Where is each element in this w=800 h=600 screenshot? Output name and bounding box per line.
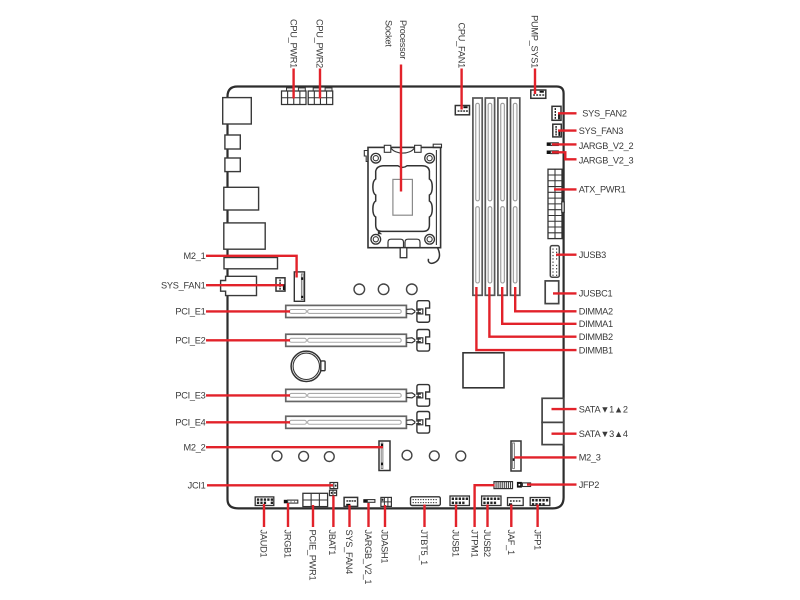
connector JFP1 (USB header) [530,498,550,506]
svg-text:DIMMB2: DIMMB2 [579,332,613,342]
svg-text:JTBT5_1: JTBT5_1 [419,530,429,566]
mounting hole [456,451,466,461]
PCIe slot PCI_E1 [286,301,430,323]
mounting hole [378,284,389,295]
connector SYS_FAN1 (4-pin fan header) [276,278,285,291]
mounting hole [324,452,334,462]
svg-text:JBAT1: JBAT1 [327,530,337,556]
svg-text:SATA▼1▲2: SATA▼1▲2 [579,404,628,414]
connector PUMP_SYS1 (4-pin fan header) [531,90,546,98]
rear I/O audio jack block [221,276,257,295]
wire M2_1 callout [206,256,297,278]
svg-text:JUSB3: JUSB3 [579,250,606,260]
svg-text:ATX_PWR1: ATX_PWR1 [579,185,626,195]
connector JUSB3 (USB 3.2 header) [550,246,559,278]
wire M2_2 callout [206,446,383,448]
wire JRGB1 callout [287,503,289,527]
connector JAUD1 (front audio) [255,497,274,506]
wire SATA 1/2 callout [552,408,577,410]
mounting hole [272,451,282,461]
wire JDASH1 callout [384,505,386,527]
CPU socket (Processor Socket) [364,144,441,263]
svg-text:PCIE_PWR1: PCIE_PWR1 [308,530,318,581]
connector ATX_PWR1 (24-pin power) [548,169,564,238]
svg-text:DIMMA2: DIMMA2 [579,307,613,317]
connector SYS_FAN3 (4-pin fan header) [553,124,562,137]
wire PCI_E3 callout [206,394,290,396]
svg-text:PCI_E4: PCI_E4 [175,418,205,428]
svg-text:PUMP_SYS1: PUMP_SYS1 [530,15,540,68]
rear I/O port block 4 [224,187,259,210]
wire ATX_PWR1 callout [554,188,577,190]
connector CPU_PWR2 (8-pin power) [308,88,333,105]
svg-text:CPU_PWR1: CPU_PWR1 [288,19,298,68]
SATA ports SATA 3/4 [542,422,564,444]
connector JARGB_V2_3 (ARGB header) [547,151,559,155]
wire JUSB3 callout [556,253,577,255]
mounting hole [299,451,309,461]
wire DIMMA2 callout [515,287,576,311]
rear I/O port block 1 [223,98,252,124]
svg-text:JARGB_V2_3: JARGB_V2_3 [579,156,634,166]
wire JARGB_V2_3 callout [552,152,577,159]
svg-text:SYS_FAN3: SYS_FAN3 [579,126,624,136]
PCIe slot PCI_E3 [286,385,430,407]
wire JUSBC1 callout [553,292,577,294]
connector JARGB_V2_1 (ARGB header) [363,499,375,503]
wire JARGB_V2_1 callout [367,503,369,527]
rear I/O port block 5 [224,223,265,249]
mounting hole [407,284,418,295]
svg-text:JDASH1: JDASH1 [380,530,390,564]
wire JBAT1 callout [332,496,334,528]
M.2 slot M2_1 [294,272,304,301]
svg-text:JAUD1: JAUD1 [259,530,269,558]
svg-text:CPU_PWR2: CPU_PWR2 [315,19,325,68]
connector JUSB1 (USB header) [450,496,469,506]
wire JTBT5_1 callout [423,505,425,528]
SATA ports SATA 1/2 [542,398,564,422]
battery BT1 [291,351,325,381]
wire JUSB1 callout [455,505,457,528]
svg-text:JFP2: JFP2 [579,480,600,490]
svg-text:JRGB1: JRGB1 [283,530,293,559]
wire SYS_FAN2 callout [558,112,577,114]
connector SYS_FAN2 (4-pin fan header) [552,106,561,120]
wire CPU_PWR2 callout [319,69,321,99]
svg-text:JFP1: JFP1 [532,530,542,551]
wire JCI1 callout [207,484,333,486]
mounting hole [354,284,365,295]
svg-text:Processor: Processor [398,20,408,59]
svg-text:CPU_FAN1: CPU_FAN1 [456,23,466,69]
wire JFP1 callout [536,505,538,528]
svg-text:JAF_1: JAF_1 [506,530,516,555]
wire DIMMB1 callout [476,287,576,350]
svg-text:PCI_E1: PCI_E1 [175,307,205,317]
wire JAUD1 callout [263,504,265,527]
mounting hole [402,450,412,460]
svg-text:Socket: Socket [384,20,394,47]
wire SATA 3/4 callout [552,433,577,435]
wire Processor Socket callout [400,65,402,192]
M.2 slot M2_3 [511,441,521,471]
wire PCIE_PWR1 callout [312,505,314,527]
wire JTPM1 callout [475,485,495,527]
wire PUMP_SYS1 callout [534,69,536,95]
svg-text:M2_1: M2_1 [184,251,206,261]
svg-text:M2_2: M2_2 [184,442,206,452]
svg-text:DIMMA1: DIMMA1 [579,319,613,329]
svg-text:SYS_FAN1: SYS_FAN1 [161,280,206,290]
DIMM slot DIMMA2 [511,98,520,295]
svg-text:SYS_FAN2: SYS_FAN2 [582,109,627,119]
wire PCI_E1 callout [206,310,290,312]
svg-text:SATA▼3▲4: SATA▼3▲4 [579,429,628,439]
svg-text:JTPM1: JTPM1 [469,530,479,558]
connector JFP2 (front panel) [517,482,531,488]
wire M2_3 callout [515,456,577,458]
PCIe slot PCI_E4 [286,412,430,434]
DIMM slot DIMMA1 [498,98,507,295]
DIMM slot DIMMB2 [485,98,494,295]
svg-text:JUSB2: JUSB2 [482,530,492,557]
svg-text:JUSBC1: JUSBC1 [579,289,613,299]
wire DIMMA1 callout [502,287,576,324]
connector JBAT1 (clear CMOS jumper) [330,490,337,495]
wire SYS_FAN3 callout [558,129,577,131]
connector CPU_FAN1 (4-pin fan header) [455,106,469,115]
svg-text:JCI1: JCI1 [188,481,206,491]
connector JTPM1 (TPM header) [494,482,513,489]
PCIe slot PCI_E2 [286,330,430,352]
wire CPU_FAN1 callout [460,69,462,110]
svg-text:PCI_E2: PCI_E2 [175,336,205,346]
connector JAF_1 (audio front) [508,498,524,506]
M.2 slot M2_2 [379,441,390,471]
rear I/O port block 2 [225,135,240,149]
connector JCI1 (chassis intrusion) [330,483,338,489]
board outline [228,87,564,509]
svg-text:JARGB_V2_1: JARGB_V2_1 [363,530,373,585]
wire JARGB_V2_2 callout [552,143,577,145]
wire SYS_FAN1 callout [206,284,284,286]
svg-text:PCI_E3: PCI_E3 [175,391,205,401]
connector JDASH1 (dashboard header) [381,497,392,506]
wire CPU_PWR1 callout [292,69,294,99]
svg-text:JUSB1: JUSB1 [451,530,461,557]
connector JARGB_V2_2 (ARGB header) [547,142,559,146]
connector CPU_PWR1 (8-pin power) [282,88,307,105]
svg-text:DIMMB1: DIMMB1 [579,345,613,355]
label Processor Socket [384,20,409,59]
connector PCIE_PWR1 (PCIe power) [303,493,328,506]
rear I/O port block 6 [224,258,278,269]
wire JUSB2 callout [486,505,488,528]
svg-text:JARGB_V2_2: JARGB_V2_2 [579,141,634,151]
connector JUSBC1 (USB-C header) [545,281,559,304]
wire PCI_E4 callout [206,421,290,423]
DIMM slot DIMMB1 [473,98,482,295]
connector JRGB1 (RGB header) [284,500,298,504]
wire JFP2 callout [527,483,577,485]
connector JTBT5_1 (Thunderbolt header) [411,497,441,506]
wire PCI_E2 callout [206,339,290,341]
mounting hole [429,451,439,461]
svg-text:M2_3: M2_3 [579,453,601,463]
connector SYS_FAN4 (4-pin fan header) [344,497,358,506]
chipset [463,353,504,388]
connector JUSB2 (USB header) [482,496,501,506]
svg-text:SYS_FAN4: SYS_FAN4 [344,530,354,575]
rear I/O port block 3 [225,158,240,172]
wire DIMMB2 callout [489,287,576,337]
wire JAF_1 callout [510,505,512,528]
wire SYS_FAN4 callout [348,505,350,527]
